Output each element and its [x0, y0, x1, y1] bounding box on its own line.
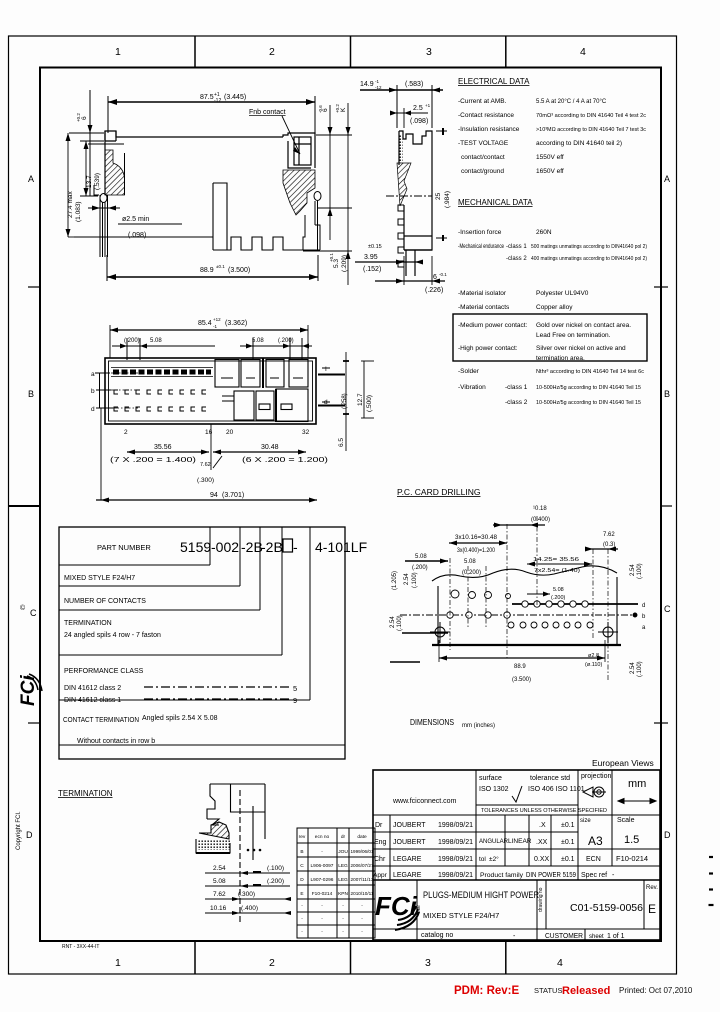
- svg-text:3: 3: [425, 957, 431, 969]
- fold marks right edge: [709, 857, 714, 905]
- svg-text:7.62: 7.62: [213, 891, 226, 898]
- svg-text:2010/10/11: 2010/10/11: [351, 891, 374, 897]
- svg-text:-0.6: -0.6: [318, 105, 323, 113]
- svg-text:1650V eff: 1650V eff: [536, 168, 564, 175]
- svg-text:drawing no: drawing no: [538, 887, 544, 912]
- faston tab right: [294, 137, 311, 165]
- svg-text:-: -: [342, 917, 344, 922]
- hole rows: [400, 590, 638, 628]
- svg-text:PLUGS-MEDIUM HIGHT POWER: PLUGS-MEDIUM HIGHT POWER: [423, 890, 539, 901]
- svg-text:¹0.18: ¹0.18: [533, 506, 547, 512]
- svg-text:Without contacts in row b: Without contacts in row b: [77, 738, 155, 745]
- svg-text:Dr: Dr: [375, 822, 383, 829]
- right dims: [343, 352, 374, 451]
- svg-text:A: A: [28, 174, 34, 184]
- baseline + teeth bottom: [74, 183, 305, 250]
- svg-text:(.258): (.258): [342, 393, 348, 409]
- dim 87.5 top: [108, 96, 315, 135]
- top power boxes: [215, 358, 308, 388]
- svg-text:b: b: [642, 614, 646, 620]
- svg-text:1550V eff: 1550V eff: [536, 154, 564, 161]
- centerline: [386, 195, 432, 197]
- svg-text:-: -: [321, 850, 323, 855]
- svg-text:L907-0296: L907-0296: [311, 877, 334, 883]
- svg-text:(1.083): (1.083): [75, 201, 82, 222]
- svg-text:b: b: [91, 388, 95, 395]
- svg-text:DIMENSIONS: DIMENSIONS: [410, 717, 454, 727]
- svg-text:termination area.: termination area.: [536, 355, 585, 362]
- row separators: [373, 814, 660, 816]
- svg-text:5.5 A at 20°C / 4 A at 70°C: 5.5 A at 20°C / 4 A at 70°C: [536, 99, 607, 105]
- svg-text:surface: surface: [479, 775, 502, 782]
- svg-text:5159: 5159: [180, 539, 211, 555]
- svg-text:1998/09/21: 1998/09/21: [438, 856, 473, 863]
- svg-text:LINEAR: LINEAR: [508, 838, 532, 845]
- svg-text:-Vibration: -Vibration: [458, 384, 486, 391]
- row b: [400, 614, 632, 616]
- svg-text:Printed: Oct 07,2010: Printed: Oct 07,2010: [619, 986, 693, 995]
- right dims: [303, 103, 352, 285]
- svg-text:16: 16: [205, 429, 213, 436]
- svg-text:2.54: 2.54: [390, 616, 396, 628]
- svg-text:(.200): (.200): [412, 565, 428, 571]
- svg-text:12.7: 12.7: [357, 393, 364, 406]
- svg-text:mm (inches): mm (inches): [462, 723, 495, 729]
- svg-text:B: B: [28, 389, 34, 399]
- svg-text:-0.1: -0.1: [439, 272, 447, 277]
- svg-text:±0.1: ±0.1: [561, 856, 575, 863]
- svg-text:ANGULAR: ANGULAR: [479, 839, 509, 845]
- electrical data block: [458, 77, 646, 175]
- svg-text:F10-0214: F10-0214: [616, 854, 648, 863]
- svg-text:Product family: Product family: [480, 873, 523, 879]
- svg-text:2: 2: [124, 429, 128, 436]
- svg-text:-002: -002: [211, 539, 239, 555]
- svg-text:NUMBER OF CONTACTS: NUMBER OF CONTACTS: [64, 598, 146, 605]
- svg-text:-: -: [321, 904, 323, 909]
- svg-text:a: a: [642, 625, 646, 631]
- svg-text:-1: -1: [213, 324, 217, 329]
- svg-text:LEG: LEG: [338, 877, 348, 883]
- svg-text:-Insertion force: -Insertion force: [458, 229, 502, 236]
- svg-text:Scale: Scale: [617, 817, 635, 824]
- svg-text:Lead Free on termination.: Lead Free on termination.: [536, 332, 611, 339]
- svg-text:±0.1: ±0.1: [561, 822, 575, 829]
- left dim lines: [390, 633, 448, 662]
- svg-text:-Material contacts: -Material contacts: [458, 304, 510, 311]
- dim 6 top-left: [89, 90, 91, 196]
- svg-text:D: D: [26, 830, 33, 840]
- svg-text:ISO 1302: ISO 1302: [479, 786, 509, 793]
- svg-text:A3: A3: [588, 834, 603, 848]
- svg-text:Fnb contact: Fnb contact: [249, 109, 286, 116]
- svg-text:-: -: [321, 917, 323, 922]
- svg-text:K: K: [340, 107, 347, 112]
- red footer PDM text: [454, 985, 693, 997]
- svg-text:7.62: 7.62: [603, 532, 615, 538]
- svg-text:2.54: 2.54: [404, 573, 410, 585]
- svg-text:(7 X .200 = 1.400): (7 X .200 = 1.400): [110, 457, 196, 464]
- svg-text:(0.3): (0.3): [603, 542, 615, 548]
- termination section: [58, 784, 291, 950]
- stair horizontal row lines: [59, 565, 345, 745]
- svg-text:-: -: [342, 930, 344, 935]
- svg-text:>10³MΩ according to DIN 41640: >10³MΩ according to DIN 41640 Teil 7 tes…: [536, 127, 646, 133]
- svg-text:E: E: [648, 902, 656, 916]
- svg-text:1999/06/01: 1999/06/01: [351, 849, 374, 855]
- svg-text:d: d: [642, 603, 645, 609]
- svg-text:7.62: 7.62: [200, 462, 211, 468]
- svg-text:(1.205): (1.205): [392, 571, 398, 590]
- svg-text:(.100): (.100): [637, 661, 643, 677]
- svg-text:+0.2: +0.2: [76, 113, 81, 122]
- svg-text:-1: -1: [375, 79, 379, 84]
- svg-text:2: 2: [269, 46, 275, 58]
- svg-text:LEGARE: LEGARE: [393, 872, 422, 879]
- svg-text:LEG: LEG: [338, 863, 348, 869]
- svg-text:4: 4: [580, 46, 586, 58]
- dim 94: [100, 408, 102, 500]
- svg-text:(.098): (.098): [410, 118, 428, 125]
- svg-text:10.16: 10.16: [210, 905, 227, 912]
- svg-text:1998/09/21: 1998/09/21: [438, 839, 473, 846]
- hatch strip left: [399, 135, 403, 163]
- svg-text:B: B: [664, 389, 670, 399]
- svg-text:2.54: 2.54: [213, 865, 226, 872]
- svg-text:CONTACT TERMINATION: CONTACT TERMINATION: [63, 717, 139, 724]
- left band row dividers: [28, 286, 40, 288]
- svg-text:ISO 406 ISO 1101: ISO 406 ISO 1101: [528, 786, 585, 793]
- approvals sub columns: [389, 815, 391, 880]
- row d: [512, 603, 638, 605]
- svg-text:25: 25: [435, 192, 442, 200]
- svg-text:-Contact resistance: -Contact resistance: [458, 112, 514, 119]
- termination dims: [210, 865, 284, 912]
- svg-text:(ø.110): (ø.110): [585, 662, 602, 668]
- svg-text:(.100): (.100): [637, 563, 643, 579]
- svg-text:±0.1: ±0.1: [561, 839, 575, 846]
- dimensions note: [410, 717, 495, 729]
- svg-text:TOLERANCES UNLESS OTHERWISE SP: TOLERANCES UNLESS OTHERWISE SPECIFIED: [481, 808, 607, 814]
- svg-text:according to DIN 41640 teil 2): according to DIN 41640 teil 2): [536, 140, 622, 147]
- svg-text:-: -: [361, 930, 363, 935]
- svg-text:Polyester UL94V0: Polyester UL94V0: [536, 290, 589, 297]
- svg-text:sheet: sheet: [589, 934, 604, 940]
- svg-text:(.400): (.400): [241, 905, 258, 912]
- svg-text:2.54: 2.54: [630, 662, 636, 674]
- svg-text:5.08: 5.08: [553, 587, 564, 593]
- svg-text:4-101LF: 4-101LF: [315, 539, 367, 555]
- svg-text:rev: rev: [299, 834, 306, 840]
- svg-text:-Mechanical endurance: -Mechanical endurance: [458, 243, 504, 250]
- svg-text:6: 6: [322, 108, 329, 112]
- title block: [373, 770, 660, 940]
- svg-text:-12: -12: [214, 98, 221, 104]
- svg-text:Chr: Chr: [374, 856, 386, 863]
- VIEW 3 : front view (middle): [91, 317, 374, 503]
- svg-text:www.fciconnect.com: www.fciconnect.com: [392, 798, 457, 805]
- svg-text:+0.1: +0.1: [329, 253, 334, 262]
- svg-text:FCi: FCi: [375, 891, 418, 921]
- svg-text:STATUS:: STATUS:: [534, 986, 565, 995]
- svg-text:tolerance std: tolerance std: [530, 775, 570, 782]
- svg-text:14.25= 35.56: 14.25= 35.56: [533, 557, 579, 563]
- svg-text:European Views: European Views: [592, 758, 654, 768]
- VIEW 2 : end cross-section (top-middle): [355, 79, 451, 294]
- svg-text:(.984): (.984): [444, 191, 451, 208]
- copyright left band: [16, 604, 42, 850]
- svg-text:-2B: -2B: [261, 539, 283, 555]
- svg-text:-class 2: -class 2: [506, 256, 527, 262]
- svg-text:.XX: .XX: [536, 839, 548, 846]
- svg-text:-Current at AMB.: -Current at AMB.: [458, 98, 507, 105]
- svg-text:E: E: [300, 891, 303, 897]
- svg-text:(6 X .200 = 1.200): (6 X .200 = 1.200): [242, 457, 328, 464]
- svg-text:5.08: 5.08: [213, 878, 226, 885]
- termination drawing profile: [196, 784, 265, 922]
- svg-text:1998/09/21: 1998/09/21: [438, 872, 473, 879]
- svg-text:1 of 1: 1 of 1: [607, 933, 625, 940]
- svg-text:-class 2: -class 2: [505, 399, 528, 406]
- svg-text:projection: projection: [581, 773, 611, 780]
- mounting holes: [430, 622, 618, 643]
- svg-text:(.100): (.100): [412, 572, 418, 588]
- svg-text:260N: 260N: [536, 229, 552, 236]
- svg-text:TERMINATION: TERMINATION: [58, 789, 113, 798]
- svg-text:FCi: FCi: [18, 675, 39, 706]
- svg-text:C01-5159-0056: C01-5159-0056: [570, 902, 643, 914]
- svg-text:±2°: ±2°: [489, 855, 499, 863]
- svg-text:(.300): (.300): [238, 891, 255, 898]
- left leg: [94, 185, 108, 257]
- svg-text:(.300): (.300): [197, 477, 214, 484]
- svg-text:(.200): (.200): [267, 878, 284, 885]
- svg-text:C: C: [30, 608, 37, 618]
- svg-text:D: D: [664, 830, 671, 840]
- svg-text:20: 20: [226, 429, 234, 436]
- svg-text:400 matings unmatings accordin: 400 matings unmatings according to DIN41…: [531, 256, 647, 262]
- svg-text:-: -: [301, 917, 303, 922]
- svg-text:C: C: [664, 604, 671, 614]
- svg-text:9: 9: [293, 696, 297, 705]
- svg-text:14.9: 14.9: [360, 81, 374, 88]
- column separators top row: [475, 770, 477, 880]
- svg-text:Rev.: Rev.: [646, 885, 658, 891]
- svg-text:.X: .X: [539, 822, 546, 829]
- svg-text:RNT - 3XX-44-IT: RNT - 3XX-44-IT: [62, 944, 99, 950]
- svg-text:3: 3: [426, 46, 432, 58]
- svg-text:catalog no: catalog no: [421, 932, 453, 939]
- svg-text:1.5: 1.5: [624, 834, 639, 846]
- svg-text:MIXED STYLE F24/H7: MIXED STYLE F24/H7: [423, 911, 499, 920]
- dim 25 right: [436, 128, 447, 241]
- svg-text:+0.2: +0.2: [335, 104, 340, 113]
- svg-text:PDM: Rev:E: PDM: Rev:E: [454, 985, 520, 997]
- svg-text:D: D: [300, 877, 304, 883]
- vertical centerlines: [450, 516, 608, 680]
- svg-text:DIN POWER 5159: DIN POWER 5159: [526, 872, 576, 879]
- svg-text:(0.400): (0.400): [531, 517, 550, 523]
- svg-text:(.500): (.500): [366, 395, 373, 412]
- svg-text:2.54: 2.54: [630, 564, 636, 576]
- svg-text:2006/07/27: 2006/07/27: [351, 863, 374, 869]
- part number block: [59, 527, 345, 759]
- svg-text:-class 1: -class 1: [505, 384, 528, 391]
- svg-text:(.209): (.209): [341, 255, 348, 272]
- svg-text:JOU: JOU: [338, 849, 348, 855]
- revision table: [297, 828, 375, 938]
- svg-text:PART NUMBER: PART NUMBER: [97, 543, 151, 552]
- VIEW 1 : side cross-section (top-left): [66, 90, 353, 285]
- svg-text:©: ©: [20, 604, 26, 612]
- svg-text:Eng: Eng: [374, 839, 387, 846]
- svg-text:-: -: [301, 904, 303, 909]
- svg-text:-2B: -2B: [241, 539, 263, 555]
- svg-text:-Insulation resistance: -Insulation resistance: [458, 126, 520, 133]
- svg-text:(.200): (.200): [551, 595, 566, 601]
- svg-text:-12: -12: [375, 85, 382, 90]
- svg-text:B: B: [300, 849, 303, 855]
- svg-text:±0.1: ±0.1: [216, 264, 225, 269]
- svg-text:-: -: [612, 872, 615, 879]
- boxed contact finish rows: [453, 314, 647, 361]
- svg-text:JOUBERT: JOUBERT: [393, 822, 426, 829]
- upper left row circles: [451, 590, 459, 598]
- svg-text:(3.362): (3.362): [225, 320, 247, 327]
- svg-text:(.583): (.583): [405, 81, 423, 88]
- svg-text:(.100): (.100): [397, 615, 403, 631]
- svg-text:P.C. CARD DRILLING: P.C. CARD DRILLING: [397, 487, 480, 497]
- svg-text:27.4 max: 27.4 max: [67, 191, 74, 218]
- left hatched wedge: [105, 150, 125, 195]
- svg-text:contact/ground: contact/ground: [461, 168, 504, 175]
- svg-text:contact/contact: contact/contact: [461, 154, 505, 161]
- svg-text:MECHANICAL DATA: MECHANICAL DATA: [458, 198, 533, 207]
- svg-text:(3.500): (3.500): [512, 677, 531, 683]
- main title area columns: [416, 880, 418, 940]
- svg-text:85.4: 85.4: [198, 320, 212, 327]
- svg-text:(.200): (.200): [278, 338, 294, 344]
- svg-text:3x10.16=30.48: 3x10.16=30.48: [455, 535, 498, 541]
- svg-text:(.152): (.152): [363, 266, 381, 273]
- svg-text:DIN 41612 class 1: DIN 41612 class 1: [64, 697, 121, 704]
- svg-text:3.95: 3.95: [364, 254, 378, 261]
- svg-text:2007/11/13: 2007/11/13: [351, 877, 374, 883]
- row b dashes: [114, 390, 206, 411]
- svg-text:MIXED STYLE F24/H7: MIXED STYLE F24/H7: [64, 575, 135, 582]
- svg-text:ELECTRICAL DATA: ELECTRICAL DATA: [458, 77, 530, 86]
- svg-text:F10-0214: F10-0214: [312, 891, 333, 897]
- svg-text:-: -: [321, 930, 323, 935]
- svg-text:(3.500): (3.500): [228, 267, 250, 274]
- left bumps (tails): [398, 205, 404, 267]
- svg-text:6: 6: [81, 116, 88, 120]
- svg-text:d: d: [324, 399, 328, 406]
- svg-text:6.5: 6.5: [338, 438, 345, 447]
- svg-text:L906-0097: L906-0097: [311, 863, 334, 869]
- drop lines from part number segments: [210, 527, 310, 700]
- svg-text:dr: dr: [341, 834, 346, 840]
- svg-text:(.200): (.200): [124, 338, 140, 344]
- svg-text:5.08: 5.08: [150, 338, 162, 344]
- svg-text:-TEST VOLTAGE: -TEST VOLTAGE: [458, 140, 509, 147]
- right leg: [303, 192, 321, 251]
- svg-text:Angled spils 2.54 X 5.08: Angled spils 2.54 X 5.08: [142, 715, 218, 722]
- svg-text:-: -: [342, 904, 344, 909]
- svg-text:1: 1: [115, 957, 121, 969]
- svg-text:-class 1: -class 1: [506, 244, 527, 250]
- svg-text:35.56: 35.56: [154, 444, 172, 451]
- svg-text:d: d: [91, 406, 95, 413]
- svg-text:1: 1: [115, 46, 121, 58]
- svg-text:±0.15: ±0.15: [368, 244, 382, 250]
- svg-text:10-500Hz/5g according to DIN 4: 10-500Hz/5g according to DIN 41640 Teil …: [536, 385, 641, 391]
- right side marks: [318, 368, 345, 406]
- svg-text:24 angled spils 4 row - 7 fast: 24 angled spils 4 row - 7 faston: [64, 632, 161, 639]
- svg-text:CUSTOMER: CUSTOMER: [545, 933, 583, 940]
- svg-text:date: date: [357, 834, 367, 840]
- svg-text:0.XX: 0.XX: [534, 856, 550, 863]
- svg-text:Copper alloy: Copper alloy: [536, 304, 573, 311]
- svg-text:32: 32: [302, 429, 310, 436]
- svg-text:(0.200): (0.200): [462, 570, 481, 576]
- svg-text:4: 4: [557, 957, 563, 969]
- svg-text:DIN 41612 class 2: DIN 41612 class 2: [64, 685, 121, 692]
- bottom power boxes: [222, 389, 308, 422]
- right band row dividers: [654, 286, 668, 288]
- svg-text:5.08: 5.08: [464, 559, 476, 565]
- svg-text:-: -: [361, 917, 363, 922]
- svg-text:Nthr³ according to DIN 41640 T: Nthr³ according to DIN 41640 Teil 14 tes…: [536, 369, 644, 375]
- svg-text:A: A: [664, 174, 670, 184]
- svg-text:(3.445): (3.445): [224, 94, 246, 101]
- svg-text:+1: +1: [425, 103, 431, 108]
- svg-text:ecn no: ecn no: [315, 835, 330, 840]
- VIEW 4 : P.C. card drilling: [390, 487, 646, 683]
- board outline: [432, 566, 621, 645]
- svg-text:-Material isolator: -Material isolator: [458, 290, 507, 297]
- svg-text:-High power contact:: -High power contact:: [458, 345, 518, 352]
- svg-text:2: 2: [269, 957, 275, 969]
- bottom band column dividers: [194, 941, 196, 974]
- svg-text:5.08: 5.08: [415, 554, 427, 560]
- pitch dims: [210, 424, 212, 470]
- svg-text:ø2.8: ø2.8: [588, 653, 599, 659]
- svg-text:I: I: [325, 366, 327, 373]
- svg-text:mm: mm: [628, 778, 646, 790]
- svg-text:500 matings unmatings accordin: 500 matings unmatings according to DIN41…: [531, 244, 647, 250]
- svg-text:JOUBERT: JOUBERT: [393, 839, 426, 846]
- svg-text:a: a: [91, 371, 95, 378]
- body outline: [105, 131, 315, 195]
- row a: [508, 622, 514, 628]
- svg-text:87.5: 87.5: [200, 94, 214, 101]
- svg-text:ECN: ECN: [586, 856, 601, 863]
- svg-text:tol: tol: [479, 856, 486, 863]
- svg-text:13.7: 13.7: [86, 175, 93, 188]
- svg-text:(3.701): (3.701): [222, 492, 244, 499]
- svg-text:Silver over nickel on active a: Silver over nickel on active and: [536, 345, 626, 352]
- svg-text:-: -: [513, 933, 516, 940]
- svg-text:KPN: KPN: [338, 891, 348, 897]
- svg-text:5: 5: [293, 684, 297, 693]
- svg-text:1998/09/21: 1998/09/21: [438, 822, 473, 829]
- svg-text:Released: Released: [562, 985, 610, 997]
- svg-text:Spec ref: Spec ref: [581, 872, 607, 879]
- svg-text:(.226): (.226): [425, 287, 443, 294]
- svg-text:Copyright FCI.: Copyright FCI.: [16, 811, 22, 850]
- svg-text:Gold over nickel on contact ar: Gold over nickel on contact area.: [536, 322, 631, 329]
